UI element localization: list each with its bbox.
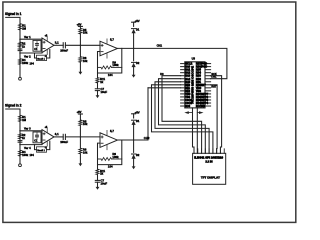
microcontroller U3 body	[185, 62, 205, 108]
capacitor coupling 100nF ch2	[62, 134, 64, 139]
svg-text:RC0: RC0	[185, 105, 190, 108]
wire clamp ch1	[133, 33, 135, 61]
svg-text:Small 1: Small 1	[37, 150, 45, 152]
ground (divider) ch1	[79, 62, 81, 72]
svg-text:1k: 1k	[22, 44, 25, 48]
svg-text:10k: 10k	[83, 31, 88, 35]
wire op-amp U2:A output	[54, 136, 63, 138]
diode D11 clamp high ch1	[132, 29, 136, 33]
U3 right pins	[205, 63, 211, 65]
svg-text:3,1: 3,1	[55, 41, 59, 45]
attenuator trimmer box ch2	[33, 132, 41, 143]
svg-text:10uF: 10uF	[101, 90, 108, 94]
wire to second stage ch1	[65, 44, 100, 46]
op-amp U1:A power stubs	[46, 36, 48, 41]
op-amp U1:B power stubs	[106, 39, 108, 44]
wire U3 left CH2 pin	[148, 87, 181, 89]
ground (bias) ch2	[96, 187, 100, 190]
wire upper branch to attenuator ch2	[20, 130, 42, 132]
svg-text:SCK: SCK	[211, 72, 217, 76]
resistor R22 between branches ch2	[18, 134, 21, 139]
svg-text:Var 1: Var 1	[24, 35, 31, 39]
svg-text:Var 2: Var 2	[24, 54, 31, 58]
capacitor 10uF ch1	[97, 83, 99, 89]
svg-text:U3: U3	[192, 57, 196, 61]
capacitor trim ch2	[18, 140, 22, 142]
resistor R24 100k ch2	[18, 150, 21, 156]
wire clamp ch2	[133, 125, 135, 153]
svg-text:10k: 10k	[83, 122, 88, 126]
svg-text:Var 3: Var 3	[24, 127, 31, 131]
op-amp U2:A (first stage)	[42, 130, 54, 145]
svg-text:Signal In 2: Signal In 2	[5, 104, 22, 108]
svg-text:10k: 10k	[83, 150, 88, 154]
TFT pin stubs	[193, 149, 195, 154]
VDD net arrow	[197, 112, 199, 114]
svg-text:D2: D2	[136, 153, 140, 157]
svg-text:10uF: 10uF	[101, 182, 108, 186]
resistor R14 100k ch1	[18, 59, 21, 65]
svg-text:10k: 10k	[83, 59, 88, 63]
capacitor 10uF ch2	[97, 175, 99, 181]
svg-text:Var 4: Var 4	[24, 146, 31, 150]
svg-text:D1: D1	[136, 27, 140, 31]
resistor R25 10k (divider top) ch2	[79, 120, 82, 126]
svg-text:CH2: CH2	[144, 136, 150, 140]
diode D22 clamp low ch2	[132, 154, 136, 158]
svg-text:100nF: 100nF	[60, 140, 68, 144]
svg-text:104: 104	[108, 165, 113, 169]
wire U3 left data 1 to TFT	[162, 76, 202, 154]
svg-text:3,1: 3,1	[55, 132, 59, 136]
svg-text:Small 1: Small 1	[37, 58, 45, 60]
channel 2 input terminal wire	[6, 109, 20, 164]
U3 left pins	[181, 63, 185, 65]
wire divider ch1	[79, 34, 81, 57]
svg-text:1M: 1M	[22, 118, 27, 122]
wire U3 right SCK to TFT	[211, 76, 222, 154]
svg-text:100k: 100k	[112, 155, 119, 159]
svg-text:CH1: CH1	[157, 44, 163, 48]
op-amp U2:B power stubs	[106, 130, 108, 135]
svg-text:D0: D0	[160, 72, 164, 76]
ground (input return) channel 1	[19, 77, 22, 80]
resistor R11 1M (input)	[18, 24, 21, 31]
diode D12 clamp low ch1	[132, 63, 136, 67]
svg-text:1k: 1k	[100, 80, 104, 84]
output net wire ch1	[117, 48, 226, 78]
resistor R29 100k feedback ch2	[98, 158, 102, 160]
feedback network op-amp U1:A	[47, 50, 50, 59]
VSS net arrow	[189, 112, 193, 114]
wire U3 right RST to TFT	[211, 85, 218, 154]
svg-text:104: 104	[108, 73, 113, 77]
op-amp U2:B (second stage)	[100, 133, 117, 148]
svg-text:5,7: 5,7	[110, 129, 114, 133]
feedback loop op-amp U2:B	[98, 140, 122, 165]
wire U3 left data 3 to TFT	[155, 82, 209, 154]
op-amp U1:A (first stage)	[42, 38, 54, 53]
U3 bottom wire VSS to TFT pin 1	[193, 108, 195, 153]
svg-text:RST: RST	[211, 85, 217, 89]
negative rail arrow ch2	[133, 158, 135, 166]
capacitor coupling 100nF ch1	[62, 43, 64, 48]
svg-text:C1: C1	[34, 139, 38, 143]
svg-text:2.2 IN: 2.2 IN	[205, 159, 212, 163]
svg-text:+5V: +5V	[77, 110, 82, 114]
op-amp U1:B (second stage)	[100, 41, 117, 56]
wire upper branch to attenuator ch1	[20, 38, 42, 40]
wire op-amp U1:A output	[54, 44, 63, 46]
op-amp U2:A power stubs	[46, 128, 48, 133]
ground (bias) ch1	[96, 95, 100, 98]
svg-text:100k: 100k	[112, 63, 119, 67]
feedback loop op-amp U1:B	[98, 48, 122, 73]
feedback network op-amp U2:A	[47, 141, 50, 150]
svg-text:100nF: 100nF	[60, 48, 68, 52]
svg-text:PIC18F4550 MINI OSCOPE: PIC18F4550 MINI OSCOPE	[191, 66, 195, 104]
svg-text:104: 104	[30, 153, 35, 157]
resistor R21 1M (input)	[18, 115, 21, 122]
svg-text:5,7: 5,7	[110, 38, 114, 42]
ground (input return) channel 2	[19, 164, 22, 167]
wire lower branch to attenuator ch2	[20, 144, 42, 146]
resistor R16 10k (divider bottom) ch1	[79, 57, 82, 63]
svg-text:D1: D1	[136, 119, 140, 123]
svg-text:C1: C1	[34, 47, 38, 51]
capacitor trim ch1	[18, 48, 22, 50]
diode D21 clamp high ch2	[132, 121, 136, 125]
svg-text:+5V: +5V	[77, 22, 82, 26]
resistor R26 10k (divider bottom) ch2	[79, 148, 82, 154]
svg-text:100k: 100k	[22, 61, 28, 65]
channel 1 input terminal wire	[6, 17, 20, 77]
resistor R111 1k bias ch1	[97, 73, 99, 78]
output net wire ch2	[117, 88, 148, 140]
svg-text:1k: 1k	[22, 136, 25, 140]
svg-text:ILI9341 SPI 240X320: ILI9341 SPI 240X320	[194, 156, 223, 160]
svg-text:104: 104	[30, 62, 35, 66]
svg-text:100k: 100k	[22, 153, 28, 157]
wire to second stage ch2	[65, 136, 100, 138]
attenuator trimmer box ch1	[33, 40, 41, 51]
TFT display module body	[193, 153, 226, 184]
wire U3 left data 4 to TFT	[152, 85, 213, 154]
U3 bottom wire VDD to TFT pin 2	[196, 108, 198, 153]
svg-text:Signal In 1: Signal In 1	[5, 12, 22, 16]
wire divider ch2	[79, 126, 81, 149]
wire lower branch to attenuator ch1	[20, 52, 42, 54]
svg-text:TFT DISPLAY: TFT DISPLAY	[201, 176, 220, 180]
ground (divider) ch2	[79, 154, 81, 164]
resistor R19 100k feedback ch1	[98, 66, 102, 68]
svg-text:1k: 1k	[100, 172, 104, 176]
svg-text:D2: D2	[136, 61, 140, 65]
resistor R12 between branches ch1	[18, 42, 21, 47]
wire U3 left data 2 to TFT	[159, 79, 206, 154]
resistor R15 10k (divider top) ch1	[79, 28, 82, 34]
resistor R211 1k bias ch2	[97, 165, 99, 170]
svg-text:1M: 1M	[22, 26, 27, 30]
negative rail arrow ch1	[133, 67, 135, 75]
